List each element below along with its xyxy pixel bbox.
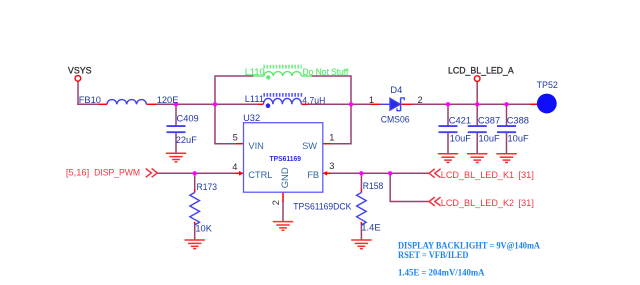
svg-text:120E: 120E (157, 95, 179, 105)
svg-text:LCD_BL_LED_K2: LCD_BL_LED_K2 (441, 198, 514, 208)
svg-text:1: 1 (329, 133, 334, 143)
svg-text:RSET = VFB/ILED: RSET = VFB/ILED (398, 251, 469, 261)
svg-text:L111: L111 (245, 94, 264, 104)
svg-text:R173: R173 (197, 182, 218, 192)
svg-text:U32: U32 (243, 113, 260, 123)
svg-text:3: 3 (329, 161, 334, 171)
svg-text:SW: SW (302, 141, 317, 151)
svg-text:1.45E = 204mV/140mA: 1.45E = 204mV/140mA (398, 269, 485, 279)
svg-text:DISPLAY BACKLIGHT = 9V@140mA: DISPLAY BACKLIGHT = 9V@140mA (398, 241, 540, 251)
svg-text:2: 2 (418, 95, 423, 105)
svg-text:10K: 10K (195, 224, 212, 234)
svg-text:DISP_PWM: DISP_PWM (94, 167, 140, 177)
svg-text:C387: C387 (478, 115, 500, 125)
svg-text:LCD_BL_LED_K1: LCD_BL_LED_K1 (441, 170, 514, 180)
svg-text:4: 4 (232, 162, 237, 172)
svg-text:TP52: TP52 (537, 80, 558, 90)
svg-text:2: 2 (271, 200, 281, 205)
svg-text:D4: D4 (390, 85, 402, 95)
svg-text:R158: R158 (363, 181, 384, 191)
svg-text:LCD_BL_LED_A: LCD_BL_LED_A (448, 66, 514, 76)
svg-text:[5,16]: [5,16] (66, 167, 89, 177)
svg-text:FB10: FB10 (79, 95, 101, 105)
svg-text:1.4E: 1.4E (361, 223, 380, 233)
svg-text:C388: C388 (507, 115, 529, 125)
svg-text:CMS06: CMS06 (381, 115, 410, 125)
svg-text:L110: L110 (245, 67, 265, 77)
svg-text:TPS61169: TPS61169 (270, 156, 302, 163)
svg-text:C409: C409 (177, 113, 199, 123)
svg-text:1: 1 (369, 95, 374, 105)
svg-text:5: 5 (233, 133, 238, 143)
svg-text:10uF: 10uF (508, 134, 530, 144)
svg-text:[31]: [31] (518, 170, 534, 180)
svg-text:10uF: 10uF (450, 134, 472, 144)
svg-text:4.7uH: 4.7uH (302, 95, 325, 105)
svg-text:10uF: 10uF (479, 134, 501, 144)
svg-text:FB: FB (307, 170, 319, 180)
svg-text:VSYS: VSYS (68, 65, 92, 75)
svg-text:22uF: 22uF (176, 135, 198, 145)
svg-text:[31]: [31] (518, 198, 534, 208)
svg-text:CTRL: CTRL (248, 170, 272, 180)
svg-text:GND: GND (280, 167, 290, 188)
svg-text:TPS61169DCK: TPS61169DCK (293, 202, 352, 212)
svg-text:VIN: VIN (248, 141, 264, 151)
svg-text:C421: C421 (449, 115, 471, 125)
svg-text:Do Not Stuff: Do Not Stuff (303, 67, 349, 77)
